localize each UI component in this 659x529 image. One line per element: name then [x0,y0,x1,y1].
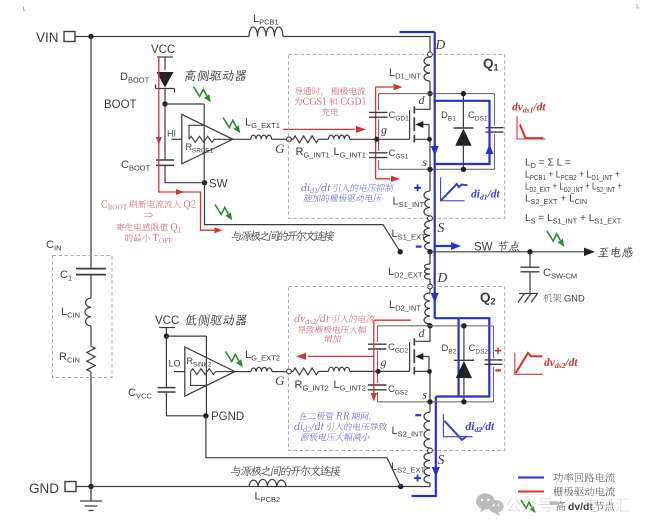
waveform dvds2/dt [515,353,543,375]
wire s1 to LS1INT [429,169,431,191]
wire DBOOT to BOOT [164,89,166,105]
wire C1 to LCIN [90,275,92,298]
svg-text:G: G [275,141,285,156]
capacitor CGS2 [368,385,387,390]
label high-side driver [185,70,246,82]
waveform did2/dt [443,414,472,437]
svg-text:D: D [437,270,448,285]
node d1 junction [427,91,432,96]
label kelvin connection Q1 [232,231,335,242]
op-amp driver U2 low-side [185,347,235,396]
svg-text:did2/dt: did2/dt [466,421,495,434]
box MOSFET Q2 outline [378,326,494,402]
svg-text:LD = Σ L =: LD = Σ L = [525,158,571,170]
diode DB1 body diode [462,94,464,128]
svg-text:CVCC: CVCC [128,387,152,401]
svg-text:GND: GND [564,294,585,304]
wire LGEXT1 to G [272,138,287,140]
wire VCC2 to CVCC [165,336,167,388]
node DB1 top junction [461,91,466,96]
node CSWCM junction [527,249,532,254]
svg-text:g: g [381,123,387,137]
capacitor CVCC [158,388,176,392]
wire driver supply pass-through [203,104,205,183]
annotation red turn-on gate current [295,87,323,96]
svg-text:LG_INT2: LG_INT2 [334,379,366,393]
svg-text:RG_INT1: RG_INT1 [296,146,330,160]
dv/dt arrow at driver out [223,118,236,128]
svg-text:DB1: DB1 [441,110,456,123]
svg-text:LD2_EXT: LD2_EXT [388,266,423,280]
node GND junction [88,484,93,489]
wire SW rail [430,251,584,253]
node SW junction [202,180,207,185]
annotation blue did1 suppression [301,183,309,191]
blue arrow down Q2 entry [431,293,439,303]
node s2 junction [427,399,432,404]
wire BOOT to driver [165,103,204,105]
inductor LPCB2 [249,479,286,486]
red gate current arrow into G1 [283,128,355,130]
node VIN junction [88,34,93,39]
blue arrow up Q1 right [486,144,494,154]
svg-text:d: d [419,326,426,340]
capacitor C1 [76,269,106,275]
node G2 gate node [287,369,292,374]
diode DBOOT [157,72,174,88]
svg-text:S: S [438,452,445,467]
svg-text:C1: C1 [60,269,72,283]
svg-text:PGND: PGND [211,411,244,423]
inductor LPCB1 [249,27,283,36]
svg-text:VIN: VIN [36,30,59,45]
crop mark top-left [24,7,26,11]
svg-text:BOOT: BOOT [104,99,137,111]
inductor LS1INT [424,191,430,216]
svg-text:CBOOT: CBOOT [121,159,151,173]
dv/dt arrow below SW [215,205,228,215]
node DB2 top junction [461,323,466,328]
wire s2 to LS2INT [429,402,431,412]
wire blue top segment [400,31,435,33]
wire CVCC to PGND [166,392,206,416]
inductor LCIN [85,298,91,326]
node g1 junction [374,137,379,142]
kelvin wire Q2 [206,416,401,487]
node g2 junction [376,369,381,374]
dashed box Q1 [289,54,505,218]
inductor LD2INT [429,289,431,293]
svg-text:CSW-CM: CSW-CM [543,267,577,281]
svg-text:HI: HI [167,129,176,139]
svg-text:CGD1: CGD1 [389,110,410,123]
capacitor CDS2 [485,360,503,364]
svg-text:GND: GND [29,481,59,496]
transistor Q2 mosfet symbol [378,342,409,371]
wire blue main vertical lower [412,397,436,497]
svg-text:LPCB1: LPCB1 [253,13,279,27]
crop mark top-right [637,4,639,8]
dv/dt arrow at driver top [194,87,207,97]
svg-text:CDS2: CDS2 [469,343,489,356]
inductor LGINT2 [329,367,350,371]
wire RGINT1 to LGINT1 [319,138,329,140]
wire blue loop Q1 [435,101,490,164]
legend power loop current [518,477,544,479]
svg-text:LCIN: LCIN [61,306,80,320]
node S1 mid [428,216,433,221]
svg-text:LS2_INT: LS2_INT [392,425,424,439]
diode DB2 body diode [463,326,465,361]
svg-text:LG_EXT2: LG_EXT2 [245,349,280,363]
svg-text:VCC: VCC [155,315,179,327]
label kelvin connection Q2 [231,466,341,477]
svg-text:s: s [422,155,427,169]
op-amp driver U1 high-side [182,114,233,163]
node s1 junction [427,167,432,172]
red CBOOT refresh path [159,57,215,230]
blue arrow down Q1 [431,146,439,156]
svg-text:Q2: Q2 [480,290,496,307]
wire driver out to LGEXT1 [233,138,251,140]
wire driver2 out to LGEXT2 [235,371,251,373]
red gate loop Q1 [376,87,394,179]
wire VCC2 to junction [165,328,167,337]
wire CBOOT to SW [165,165,205,182]
node BOOT junction [162,101,167,106]
resistor RGINT1 [291,138,293,140]
resistor RGINT2 [291,370,293,372]
capacitor CGD2 [368,344,387,349]
wire RCIN to GND rail [90,372,92,487]
svg-text:SW: SW [474,242,493,254]
svg-text:CGS1: CGS1 [389,148,409,161]
dv/dt arrow at SW [547,231,560,241]
svg-text:SW: SW [209,179,228,191]
svg-text:RG_INT2: RG_INT2 [295,379,329,393]
watermark wechat icon [476,493,504,516]
node SW rail junction [427,249,432,254]
inductor LD1INT [429,57,431,58]
watermark text [507,498,553,513]
wire LPCB1 to top-right corner [283,37,430,53]
label chassis GND [543,294,561,303]
svg-text:dvds1/dt: dvds1/dt [512,102,546,115]
blue arrow down S2 exit [432,467,440,477]
svg-text:s: s [422,388,427,402]
svg-text:LPCB1 + LPCB2 + LD1_INT +: LPCB1 + LPCB2 + LD1_INT + [525,170,620,182]
inductor LS2EXT [429,452,431,454]
svg-text:LD2_EXT + LD2_INT + LS2_INT +: LD2_EXT + LD2_INT + LS2_INT + [525,182,622,194]
node G gate node Q1 [287,137,292,142]
wire LGEXT2 to G2 [272,371,287,373]
legend gate drive current [518,491,544,493]
svg-text:did1/dt: did1/dt [471,189,500,202]
label low-side driver [185,314,247,325]
wire blue loop Q2 [435,318,490,396]
svg-text:D: D [435,37,446,52]
capacitor CDS1 [486,128,504,132]
svg-text:LG_INT1: LG_INT1 [334,146,366,160]
svg-text:VCC: VCC [151,44,175,56]
transistor Q1 mosfet symbol [377,110,410,139]
wire LCIN to RCIN [90,326,92,346]
svg-text:LPCB2: LPCB2 [255,491,281,505]
node DB2 bottom junction [461,399,466,404]
svg-text:LS1_INT: LS1_INT [393,196,425,210]
inductor LGEXT2 [251,367,272,371]
chassis ground symbol [518,294,538,303]
svg-text:LO: LO [169,359,181,369]
svg-text:DB2: DB2 [442,343,457,356]
red gate loop Q2 [374,320,411,394]
node d2 junction [427,323,432,328]
kelvin wire Q1 [205,183,401,252]
svg-text:LD2_INT: LD2_INT [389,299,421,313]
capacitor CGS1 [369,153,388,158]
dashed box Q2 [289,287,505,451]
wire VCC2 to driver [166,335,206,337]
wire blue main vertical upper [434,32,436,318]
annotation red dvds2 gate rise [294,314,305,322]
waveform did1/dt [441,177,465,200]
inductor LS2INT [424,412,430,448]
node D2 [428,284,433,289]
svg-text:G: G [275,373,285,388]
waveform dvds1/dt [517,116,545,139]
wire VIN to LPCB1 [75,36,249,38]
wire GND rail [76,486,431,488]
node GND-S2 junction [398,484,403,489]
node DB1 bottom junction [461,167,466,172]
svg-text:RSRCE1: RSRCE1 [186,142,214,155]
svg-text:CIN: CIN [46,239,61,253]
svg-text:S: S [438,220,445,235]
box MOSFET Q1 outline [379,94,495,170]
svg-text:LS2_EXT: LS2_EXT [391,461,425,475]
svg-text:CGD2: CGD2 [388,342,409,355]
node kelvin SW junction [398,249,403,254]
arrow to inductor [584,248,595,257]
node PGND junction [203,413,208,418]
inductor LD2EXT [429,252,431,264]
resistor RSRCE1 [189,125,204,139]
svg-text:LS2_EXT + LCIN: LS2_EXT + LCIN [525,194,587,206]
capacitor CBOOT [156,160,174,165]
svg-text:g: g [381,355,387,369]
wire VCC to DBOOT [164,57,166,70]
ground symbol [80,487,102,511]
svg-text:DBOOT: DBOOT [120,71,150,85]
wire RGINT2 to LGINT2 [319,370,329,372]
node VCC2 junction [164,333,169,338]
capacitor CGD1 [369,112,388,117]
resistor RSINK2 [191,372,207,386]
inductor LGINT1 [329,135,350,139]
svg-text:d: d [419,93,426,107]
wire LGINT1 to gate g1 [350,138,377,140]
resistor RCIN [87,346,95,372]
node D1 [428,52,433,57]
wire driver2 pass-through [205,336,207,416]
dashed box CIN group [53,256,113,378]
wire VIN down to C1 [90,37,92,269]
svg-text:LD1_INT: LD1_INT [389,67,421,81]
wire BOOT to CBOOT [164,104,166,160]
node S2 [428,448,433,453]
svg-text:LG_EXT1: LG_EXT1 [245,117,280,131]
svg-text:CGS2: CGS2 [388,384,408,397]
capacitor CSW-CM [529,252,531,267]
red arrow out of G2 [308,355,374,357]
legend high dvdt node [521,500,532,508]
annotation blue diode RR [299,412,334,420]
dv/dt arrow at driver2 out [226,352,239,362]
svg-text:RCIN: RCIN [59,351,80,365]
inductor LS1EXT [429,220,431,222]
blue arrow SW out [435,245,452,247]
inductor LGEXT1 [251,135,272,139]
annotation red CBOOT refresh [102,200,108,207]
svg-text:LS1_EXT: LS1_EXT [392,228,426,242]
wire LGINT2 to gate g2 [350,370,379,372]
svg-text:Q1: Q1 [483,56,499,73]
svg-text:LS = LS1_INT + LS1_EXT: LS = LS1_INT + LS1_EXT [525,213,622,225]
svg-text:dvds2/dt: dvds2/dt [544,357,578,370]
svg-text:CDS1: CDS1 [468,110,488,123]
